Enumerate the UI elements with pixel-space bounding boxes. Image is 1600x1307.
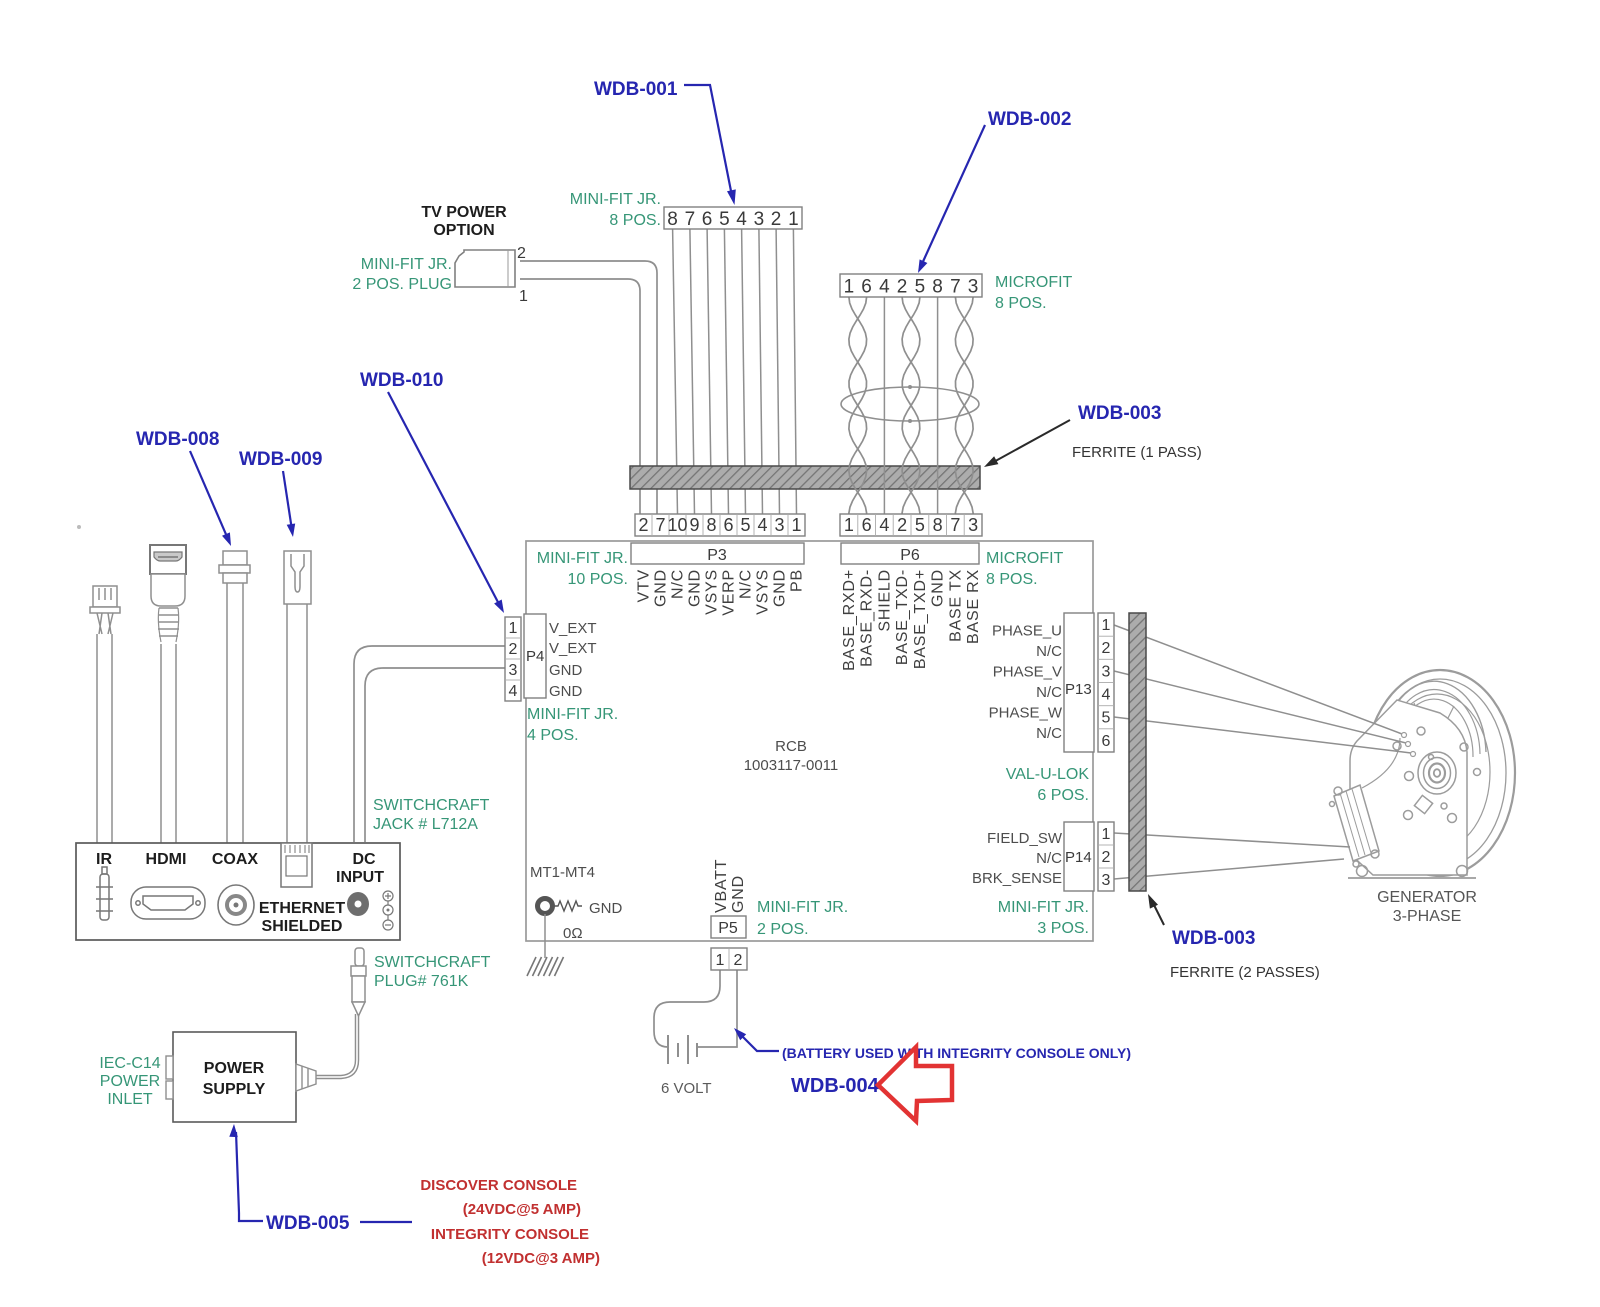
svg-text:7: 7 <box>950 276 961 297</box>
svg-text:WDB-005: WDB-005 <box>266 1213 350 1234</box>
PSU strain relief <box>296 1064 316 1091</box>
svg-text:8: 8 <box>667 209 678 230</box>
HDMI port icon <box>131 887 205 919</box>
svg-text:1: 1 <box>788 209 799 230</box>
label COAX <box>212 851 259 868</box>
svg-text:10 POS.: 10 POS. <box>568 571 628 588</box>
svg-text:WDB-009: WDB-009 <box>239 449 322 470</box>
svg-text:V_EXT: V_EXT <box>549 640 597 657</box>
svg-text:(24VDC@5 AMP): (24VDC@5 AMP) <box>463 1201 581 1218</box>
svg-text:WDB-004: WDB-004 <box>791 1075 880 1097</box>
label WDB-010 <box>360 370 504 613</box>
svg-text:1: 1 <box>844 276 855 297</box>
COAX cable plug <box>219 551 250 843</box>
svg-text:GENERATOR: GENERATOR <box>1377 889 1477 906</box>
label WDB-005 <box>229 1124 412 1234</box>
IR jack icon <box>96 867 113 920</box>
svg-text:WDB-001: WDB-001 <box>594 79 678 100</box>
wires WDB-002 twisted pairs <box>849 297 973 514</box>
wire TV plug pin2 to P3 cell 7 <box>520 261 657 514</box>
svg-text:WDB-010: WDB-010 <box>360 370 443 391</box>
svg-text:MICROFIT: MICROFIT <box>995 274 1073 291</box>
ETHERNET jack <box>281 843 312 887</box>
svg-text:1: 1 <box>791 515 801 535</box>
svg-text:WDB-002: WDB-002 <box>988 109 1071 130</box>
svg-text:2: 2 <box>1102 849 1111 866</box>
svg-text:3: 3 <box>968 276 979 297</box>
svg-text:N/C: N/C <box>1036 643 1062 660</box>
svg-text:6: 6 <box>1102 733 1111 750</box>
svg-text:8: 8 <box>706 515 716 535</box>
svg-text:BASE RX: BASE RX <box>965 569 982 644</box>
svg-text:1003117-0011: 1003117-0011 <box>744 757 839 774</box>
label IEC-C14 POWER INLET <box>99 1055 160 1108</box>
COAX jack icon <box>218 885 254 925</box>
label WDB-001 <box>594 79 736 205</box>
svg-text:6: 6 <box>723 515 733 535</box>
svg-text:INLET: INLET <box>107 1091 153 1108</box>
switchcraft plug 761K <box>351 948 366 1016</box>
wires WDB-001 8-pos harness <box>673 229 797 514</box>
svg-text:OPTION: OPTION <box>433 222 494 239</box>
label MINI-FIT JR. 10 POS. <box>537 550 628 588</box>
svg-text:1: 1 <box>1102 826 1111 843</box>
svg-text:GND: GND <box>772 569 789 607</box>
svg-text:MINI-FIT JR.: MINI-FIT JR. <box>527 706 618 723</box>
stray mark top-left <box>77 525 81 529</box>
svg-text:6: 6 <box>861 276 872 297</box>
IR cable plug <box>90 586 120 843</box>
svg-text:2: 2 <box>509 641 518 658</box>
connector P5 <box>711 916 746 938</box>
svg-text:GND: GND <box>549 662 583 679</box>
svg-text:6 VOLT: 6 VOLT <box>661 1080 712 1097</box>
svg-text:PHASE_U: PHASE_U <box>992 623 1062 640</box>
svg-text:VERP: VERP <box>721 569 738 616</box>
P4 net labels V_EXT V_EXT GND GND <box>549 620 597 700</box>
svg-text:5: 5 <box>915 515 925 535</box>
connector J1 mini-fit jr 8 pos <box>664 207 802 230</box>
label DISCOVER/INTEGRITY CONSOLE ratings <box>420 1177 600 1267</box>
svg-text:5: 5 <box>740 515 750 535</box>
connector P3 pigtail numbers <box>635 514 805 536</box>
svg-text:4: 4 <box>879 276 890 297</box>
svg-text:P3: P3 <box>707 547 727 564</box>
svg-text:TV POWER: TV POWER <box>421 204 507 221</box>
connector P13 pins <box>1098 613 1114 752</box>
svg-text:RCB: RCB <box>775 738 807 755</box>
label GENERATOR 3-PHASE <box>1377 889 1477 925</box>
connector P3 <box>631 543 804 564</box>
connector J2 microfit 8 pos top <box>840 274 982 297</box>
resistor MT1-MT4 0 ohm to GND <box>530 864 623 942</box>
svg-text:FERRITE (1 PASS): FERRITE (1 PASS) <box>1072 444 1202 461</box>
svg-text:BASE_RXD+: BASE_RXD+ <box>841 569 858 671</box>
pin 1 label TV plug <box>519 288 528 305</box>
svg-text:GND: GND <box>730 875 747 913</box>
label SWITCHCRAFT JACK # L712A <box>373 797 490 833</box>
svg-text:0Ω: 0Ω <box>563 925 583 942</box>
svg-text:(BATTERY USED WITH INTEGRITY C: (BATTERY USED WITH INTEGRITY CONSOLE ONL… <box>782 1045 1131 1061</box>
svg-text:SWITCHCRAFT: SWITCHCRAFT <box>374 954 491 971</box>
svg-text:MINI-FIT JR.: MINI-FIT JR. <box>757 899 848 916</box>
svg-text:4: 4 <box>879 515 889 535</box>
svg-text:GND: GND <box>687 569 704 607</box>
svg-text:WDB-008: WDB-008 <box>136 429 219 450</box>
svg-text:VSYS: VSYS <box>704 569 721 615</box>
ferrite FB1 (1 pass) <box>630 466 980 489</box>
svg-text:N/C: N/C <box>1036 684 1062 701</box>
ETHERNET cable plug <box>284 551 311 843</box>
label WDB-008 <box>136 429 231 546</box>
svg-text:3 POS.: 3 POS. <box>1037 920 1089 937</box>
wires P4 to DC input <box>354 646 505 842</box>
wire MT to chassis ground <box>544 914 546 958</box>
svg-text:PHASE_W: PHASE_W <box>989 705 1063 722</box>
label 6 VOLT <box>661 1080 712 1097</box>
svg-text:WDB-003: WDB-003 <box>1078 403 1161 424</box>
svg-text:GND: GND <box>589 900 623 917</box>
IEC inlet tabs <box>166 1056 173 1099</box>
cable bundle ellipse <box>841 385 979 423</box>
svg-text:VTV: VTV <box>636 569 653 603</box>
label WDB-003 ferrite 2 passes <box>1148 894 1320 981</box>
svg-text:P5: P5 <box>718 920 738 937</box>
wire P5 pin2 to battery <box>697 970 737 1047</box>
ferrite FB2 (2 passes) <box>1129 613 1146 891</box>
svg-text:P6: P6 <box>900 547 920 564</box>
svg-text:BASE_TXD+: BASE_TXD+ <box>912 569 929 669</box>
svg-text:3: 3 <box>509 662 518 679</box>
svg-text:5: 5 <box>915 276 926 297</box>
label DC INPUT <box>336 851 384 886</box>
svg-text:V_EXT: V_EXT <box>549 620 597 637</box>
svg-text:MINI-FIT JR.: MINI-FIT JR. <box>570 191 661 208</box>
svg-text:MT1-MT4: MT1-MT4 <box>530 864 595 881</box>
svg-text:7: 7 <box>950 515 960 535</box>
generator 3-phase M1 <box>1330 670 1516 878</box>
svg-text:3-PHASE: 3-PHASE <box>1393 908 1461 925</box>
HDMI cable plug <box>150 545 186 843</box>
svg-text:(12VDC@3 AMP): (12VDC@3 AMP) <box>482 1250 600 1267</box>
svg-text:2: 2 <box>897 515 907 535</box>
svg-text:3: 3 <box>774 515 784 535</box>
svg-text:2: 2 <box>1102 640 1111 657</box>
svg-text:VAL-U-LOK: VAL-U-LOK <box>1006 766 1090 783</box>
board name RCB 1003117-0011 <box>744 738 839 774</box>
svg-text:BRK_SENSE: BRK_SENSE <box>972 870 1062 887</box>
svg-text:2: 2 <box>897 276 908 297</box>
svg-text:2: 2 <box>771 209 782 230</box>
svg-text:3: 3 <box>754 209 765 230</box>
P13 net labels <box>989 623 1063 743</box>
label SWITCHCRAFT PLUG# 761K <box>374 954 491 990</box>
connector P5 pins <box>711 948 747 970</box>
svg-text:N/C: N/C <box>738 569 755 599</box>
svg-text:2: 2 <box>638 515 648 535</box>
svg-text:GND: GND <box>653 569 670 607</box>
svg-text:GND: GND <box>930 569 947 607</box>
svg-text:1: 1 <box>844 515 854 535</box>
svg-text:INPUT: INPUT <box>336 869 384 886</box>
svg-text:MINI-FIT JR.: MINI-FIT JR. <box>998 899 1089 916</box>
svg-text:ETHERNET: ETHERNET <box>259 900 345 917</box>
svg-text:8: 8 <box>932 276 943 297</box>
connector P6 pigtail numbers <box>840 514 982 536</box>
svg-text:N/C: N/C <box>1036 725 1062 742</box>
svg-text:1: 1 <box>519 288 528 305</box>
svg-text:3: 3 <box>1102 872 1111 889</box>
svg-text:IEC-C14: IEC-C14 <box>99 1055 160 1072</box>
RCB board outline <box>526 541 1093 941</box>
svg-text:10: 10 <box>667 515 687 535</box>
label WDB-003 ferrite 1 pass <box>984 403 1202 467</box>
connector P14 pins <box>1098 822 1114 891</box>
wires P13 to generator <box>1114 625 1416 757</box>
svg-text:2: 2 <box>734 952 743 969</box>
svg-text:HDMI: HDMI <box>146 851 187 868</box>
connector P13 body <box>1064 613 1094 752</box>
svg-text:8: 8 <box>933 515 943 535</box>
svg-text:SHIELD: SHIELD <box>876 569 893 632</box>
svg-text:2: 2 <box>517 245 526 262</box>
svg-text:BASE TX: BASE TX <box>947 569 964 642</box>
DC input jack icon <box>347 892 369 916</box>
chassis ground symbol <box>527 957 564 976</box>
svg-text:PLUG# 761K: PLUG# 761K <box>374 973 469 990</box>
svg-text:POWER: POWER <box>100 1073 160 1090</box>
svg-text:JACK # L712A: JACK # L712A <box>373 816 478 833</box>
svg-text:MINI-FIT JR.: MINI-FIT JR. <box>537 550 628 567</box>
label MINI-FIT JR. 4 POS. <box>527 706 618 744</box>
label WDB-009 <box>239 449 322 537</box>
P14 net labels <box>972 830 1063 887</box>
red arrow callout <box>878 1047 952 1121</box>
svg-text:8 POS.: 8 POS. <box>609 212 661 229</box>
svg-text:FERRITE (2 PASSES): FERRITE (2 PASSES) <box>1170 964 1320 981</box>
svg-text:GND: GND <box>549 683 583 700</box>
console rear panel box <box>76 843 400 940</box>
label WDB-002 <box>918 109 1071 273</box>
polarity symbols <box>383 891 393 930</box>
label MINI-FIT JR. 2 POS. <box>757 899 848 938</box>
wire P5 pin1 to battery <box>654 970 720 1047</box>
svg-text:1: 1 <box>509 620 518 637</box>
svg-text:9: 9 <box>689 515 699 535</box>
connector P14 body <box>1064 822 1094 891</box>
wires P14 to generator block <box>1114 833 1350 879</box>
svg-text:4: 4 <box>757 515 767 535</box>
svg-text:VBATT: VBATT <box>713 859 730 913</box>
svg-text:SUPPLY: SUPPLY <box>203 1081 266 1098</box>
svg-text:BASE_TXD-: BASE_TXD- <box>894 569 911 665</box>
label HDMI <box>146 851 187 868</box>
svg-text:POWER: POWER <box>204 1060 265 1077</box>
svg-text:2 POS.: 2 POS. <box>757 921 809 938</box>
svg-text:1: 1 <box>1102 617 1111 634</box>
svg-text:8 POS.: 8 POS. <box>995 295 1047 312</box>
svg-text:3: 3 <box>968 515 978 535</box>
svg-text:6: 6 <box>702 209 713 230</box>
svg-text:7: 7 <box>685 209 696 230</box>
svg-text:1: 1 <box>716 952 725 969</box>
label VAL-U-LOK 6 POS. <box>1006 766 1090 804</box>
svg-text:4: 4 <box>509 683 518 700</box>
wire TV plug pin1 to P3 cell 2 <box>520 279 640 514</box>
wire power supply cord <box>316 1014 357 1077</box>
label MINI-FIT JR. 8 POS. <box>570 191 661 229</box>
svg-text:FIELD_SW: FIELD_SW <box>987 830 1063 847</box>
power supply PS1 <box>173 1032 296 1122</box>
svg-text:IR: IR <box>96 851 112 868</box>
svg-text:5: 5 <box>1102 710 1111 727</box>
svg-text:N/C: N/C <box>670 569 687 599</box>
label ETHERNET SHIELDED <box>259 900 345 935</box>
svg-text:MINI-FIT JR.: MINI-FIT JR. <box>361 256 452 273</box>
svg-text:P14: P14 <box>1065 849 1092 866</box>
connector P6 <box>841 543 979 564</box>
svg-text:4: 4 <box>1102 687 1111 704</box>
svg-text:6 POS.: 6 POS. <box>1037 787 1089 804</box>
label battery note WDB-004 <box>734 1028 1131 1097</box>
label TV POWER OPTION <box>421 204 507 239</box>
svg-text:VSYS: VSYS <box>755 569 772 615</box>
svg-text:4: 4 <box>736 209 747 230</box>
label MICROFIT 8 POS. <box>995 274 1073 312</box>
label MINI-FIT JR. 2 POS. PLUG <box>352 256 452 293</box>
svg-text:N/C: N/C <box>1036 850 1062 867</box>
connector P4 body <box>524 614 546 698</box>
P6 pin net labels <box>841 569 982 671</box>
svg-text:2 POS. PLUG: 2 POS. PLUG <box>352 276 452 293</box>
svg-text:DISCOVER CONSOLE: DISCOVER CONSOLE <box>420 1177 577 1194</box>
svg-text:4 POS.: 4 POS. <box>527 727 579 744</box>
pin 2 label TV plug <box>517 245 526 262</box>
svg-text:DC: DC <box>352 851 376 868</box>
svg-text:MICROFIT: MICROFIT <box>986 550 1064 567</box>
svg-text:PB: PB <box>789 569 806 592</box>
svg-text:WDB-003: WDB-003 <box>1172 928 1255 949</box>
P5 net labels VBATT GND <box>713 859 747 913</box>
svg-text:6: 6 <box>862 515 872 535</box>
svg-text:5: 5 <box>719 209 730 230</box>
svg-text:SWITCHCRAFT: SWITCHCRAFT <box>373 797 490 814</box>
svg-text:3: 3 <box>1102 663 1111 680</box>
svg-text:INTEGRITY CONSOLE: INTEGRITY CONSOLE <box>431 1226 589 1243</box>
label IR <box>96 851 112 868</box>
label MICROFIT 8 POS. right <box>986 550 1064 588</box>
battery BT1 6 volt <box>668 1035 697 1064</box>
connector P4 pins <box>505 617 521 701</box>
svg-text:BASE_RXD-: BASE_RXD- <box>859 569 876 667</box>
svg-text:8 POS.: 8 POS. <box>986 571 1038 588</box>
svg-text:SHIELDED: SHIELDED <box>262 918 343 935</box>
svg-text:7: 7 <box>655 515 665 535</box>
svg-text:P13: P13 <box>1065 681 1092 698</box>
label MINI-FIT JR. 3 POS. <box>998 899 1089 937</box>
svg-text:P4: P4 <box>526 648 544 665</box>
connector TV power 2 pos plug <box>455 250 515 287</box>
svg-text:COAX: COAX <box>212 851 259 868</box>
svg-text:PHASE_V: PHASE_V <box>993 664 1062 681</box>
P3 pin net labels <box>636 569 806 616</box>
